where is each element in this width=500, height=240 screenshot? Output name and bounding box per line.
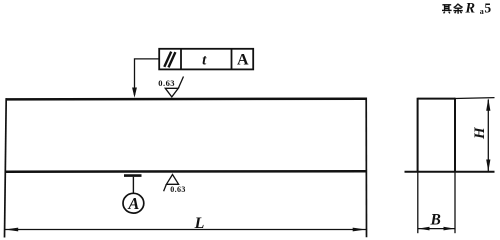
svg-text:0.63: 0.63: [170, 185, 185, 194]
svg-text:A: A: [237, 51, 249, 68]
svg-text:H: H: [472, 126, 488, 140]
svg-text:5: 5: [484, 1, 491, 16]
svg-text:0.63: 0.63: [158, 78, 175, 88]
svg-text:a: a: [480, 7, 484, 16]
svg-text:L: L: [194, 215, 205, 232]
svg-text:R: R: [464, 0, 475, 16]
svg-text:B: B: [430, 212, 441, 229]
svg-text:A: A: [127, 194, 139, 213]
